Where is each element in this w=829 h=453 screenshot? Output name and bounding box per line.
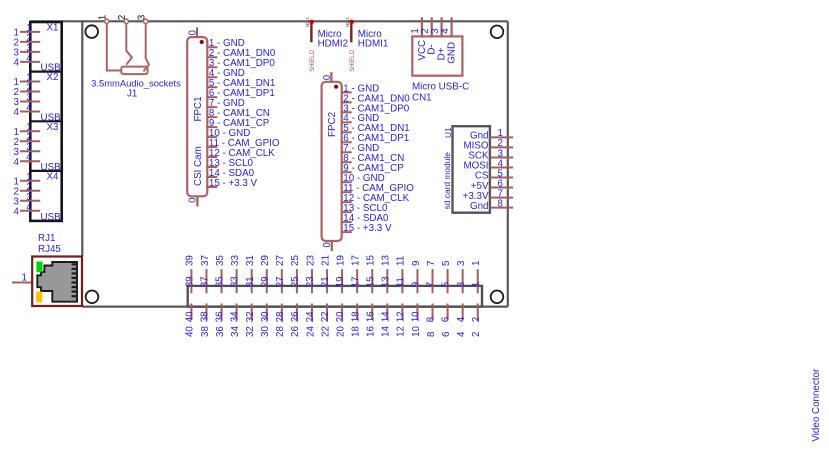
svg-text:3: 3 (456, 281, 467, 287)
svg-text:10: 10 (411, 326, 422, 337)
svg-text:SHIELD: SHIELD (310, 49, 316, 71)
svg-text:32: 32 (245, 311, 256, 322)
svg-text:Video Connector: Video Connector (811, 368, 822, 442)
svg-text:8: 8 (498, 198, 504, 209)
pin 15 of FPC FPC2: +3.3 V (341, 223, 392, 234)
wire divider above USB X4 (30, 170, 61, 172)
pin 2 of USB X2 (14, 83, 41, 99)
pin 1 of Micro USB-C CN1: VCC (410, 17, 428, 60)
pin 9 of GPIO header (top) (411, 261, 422, 294)
wire divider above USB X2 (30, 70, 61, 72)
svg-text:13: 13 (380, 276, 391, 287)
svg-text:11: 11 (396, 256, 407, 266)
svg-text:6: 6 (441, 316, 452, 322)
pin 4 of sd card module U1: MOSI (463, 158, 513, 171)
pin 5 of FPC FPC2: CAM1_DN1 (341, 123, 410, 134)
svg-text:FPC1: FPC1 (193, 96, 204, 121)
svg-text:24: 24 (305, 326, 316, 337)
pin 2 of USB X3 (14, 132, 41, 148)
svg-text:12: 12 (396, 326, 407, 337)
pin 4 of USB X2 (14, 103, 41, 119)
svg-text:1: 1 (471, 261, 482, 266)
svg-text:N0.1: N0.1 (345, 17, 351, 27)
svg-text:5: 5 (441, 260, 452, 266)
wire audio J1 ring contact from pin 3 (143, 23, 149, 71)
svg-text:0: 0 (187, 30, 198, 36)
pin 8 of GPIO header (bottom) (426, 304, 437, 338)
pin 10 of FPC FPC1: GND (206, 128, 250, 139)
svg-text:X3: X3 (47, 122, 60, 133)
svg-text:14: 14 (381, 326, 392, 337)
pin 10 of GPIO header (bottom) (411, 304, 422, 338)
svg-text:RJ1: RJ1 (38, 233, 55, 244)
pin 4 of GPIO header (bottom) (456, 304, 467, 338)
svg-text:15: 15 (365, 276, 376, 287)
pin 7 of GPIO header (top) (426, 261, 437, 294)
pin 11 of FPC FPC1: CAM_GPIO (206, 138, 280, 149)
svg-text:23: 23 (305, 255, 316, 266)
pin 37 of GPIO header (top) (200, 255, 211, 293)
svg-text:39: 39 (185, 276, 196, 287)
pin 4 of USB X4 (14, 202, 41, 218)
svg-text:Micro USB-C: Micro USB-C (412, 82, 469, 93)
svg-text:37: 37 (200, 255, 211, 266)
svg-text:24: 24 (305, 311, 316, 322)
pin 4 of FPC FPC2: GND (341, 113, 380, 124)
svg-text:30: 30 (260, 326, 271, 337)
pin 32 of GPIO header (bottom) (245, 304, 256, 338)
FPC FPC1 mounting pin 0 top (187, 28, 198, 38)
svg-text:18: 18 (350, 326, 361, 337)
svg-text:9: 9 (411, 261, 422, 266)
svg-text:8: 8 (426, 331, 437, 337)
svg-text:7: 7 (426, 261, 437, 266)
pin 7 of FPC FPC1: GND (206, 98, 245, 109)
pin 35 of GPIO header (top) (215, 255, 226, 294)
svg-text:10: 10 (411, 311, 422, 322)
pin 8 of sd card module U1: Gnd (470, 198, 513, 211)
svg-text:18: 18 (350, 311, 361, 322)
FPC connector FPC1 body (187, 37, 207, 196)
Micro HDMI1 shield pin (345, 17, 354, 43)
svg-text:4: 4 (14, 157, 20, 168)
pin 26 of GPIO header (bottom) (290, 304, 301, 338)
mounting hole bottom-left (86, 291, 99, 304)
svg-text:23: 23 (305, 276, 316, 287)
svg-text:35: 35 (215, 255, 226, 266)
svg-text:21: 21 (320, 276, 331, 287)
pin 19 of GPIO header (top) (335, 255, 346, 293)
pin 4 of Micro USB-C CN1: GND (440, 17, 458, 63)
pin 12 of FPC FPC2: CAM_CLK (341, 193, 410, 204)
svg-text:CSI Cam: CSI Cam (193, 146, 204, 186)
pin 1 of USB X1 (14, 23, 41, 39)
pin 23 of GPIO header (top) (305, 255, 316, 294)
GPIO header body (188, 286, 482, 307)
pin 3 of USB X3 (14, 142, 41, 158)
svg-text:19: 19 (335, 276, 346, 287)
svg-text:20: 20 (335, 311, 346, 322)
svg-text:5: 5 (441, 281, 452, 287)
FPC FPC1 mounting pin 0 bottom (187, 196, 198, 206)
svg-text:17: 17 (350, 255, 361, 266)
svg-text:J1: J1 (127, 88, 137, 99)
pin 11 of FPC FPC2: CAM_GPIO (341, 183, 415, 194)
svg-text:15: 15 (366, 255, 377, 266)
wire audio J1 sleeve from pin 1 (107, 23, 122, 71)
pin 3 of USB X4 (14, 192, 41, 208)
svg-text:20: 20 (335, 326, 346, 337)
FPC FPC2 pin 1 dot (334, 85, 338, 89)
svg-text:28: 28 (275, 311, 286, 322)
pin 3 of GPIO header (top) (456, 260, 467, 293)
svg-text:22: 22 (320, 311, 331, 322)
svg-text:SHIELD: SHIELD (350, 49, 356, 71)
svg-text:28: 28 (275, 326, 286, 337)
pin 9 of FPC FPC2: CAM1_CP (341, 163, 404, 174)
svg-text:1: 1 (471, 282, 482, 287)
pin 11 of GPIO header (top) (395, 256, 406, 293)
svg-text:38: 38 (200, 326, 211, 337)
svg-text:0: 0 (322, 74, 333, 80)
svg-text:X1: X1 (47, 23, 59, 34)
pin 33 of GPIO header (top) (230, 255, 241, 294)
pin 4 of USB X1 (14, 53, 41, 69)
pin 14 of FPC FPC2: SDA0 (341, 213, 389, 224)
pin 1 of FPC FPC1: GND (206, 38, 245, 49)
pin 2 of FPC FPC2: CAM1_DN0 (341, 93, 411, 104)
svg-text:4: 4 (14, 206, 20, 217)
pin 3 of Micro USB-C CN1: D+ (430, 17, 448, 60)
pin 5 of sd card module U1: CS (475, 168, 513, 181)
pin 4 of USB X3 (14, 152, 41, 168)
pin 31 of GPIO header (top) (245, 255, 256, 293)
svg-text:2: 2 (471, 332, 482, 337)
wire board outline top edge (30, 20, 508, 22)
pin 6 of GPIO header (bottom) (441, 304, 452, 338)
pin 3 of sd card module U1: SCK (468, 148, 513, 161)
pin 12 of FPC FPC1: CAM_CLK (206, 148, 275, 159)
pin 2 of GPIO header (bottom) (471, 304, 482, 338)
svg-text:4: 4 (26, 202, 32, 213)
FPC FPC2 mounting pin 0 top (322, 72, 333, 82)
svg-text:25: 25 (290, 255, 301, 266)
pin 8 of FPC FPC2: CAM1_CN (341, 153, 405, 164)
svg-text:1: 1 (22, 273, 27, 284)
svg-text:31: 31 (245, 276, 256, 287)
svg-text:13: 13 (381, 255, 392, 266)
pin 1 of GPIO header (top) (471, 261, 482, 294)
svg-text:31: 31 (245, 255, 256, 266)
pin 27 of GPIO header (top) (275, 255, 286, 293)
pin 1 of audio socket J1 terminal circle (105, 19, 109, 23)
FPC FPC2 mounting pin 0 bottom (322, 241, 333, 251)
pin 12 of GPIO header (bottom) (395, 304, 406, 338)
svg-text:36: 36 (215, 311, 226, 322)
svg-text:4: 4 (14, 107, 20, 118)
pin 30 of GPIO header (bottom) (260, 304, 271, 338)
svg-text:34: 34 (230, 311, 241, 322)
wire board outline left edge (81, 21, 83, 256)
svg-text:GND: GND (447, 42, 458, 64)
mounting hole bottom-right (491, 291, 504, 304)
RJ45 contact teeth (72, 264, 78, 296)
FPC FPC1 pin 1 dot (200, 40, 204, 44)
pin 29 of GPIO header (top) (260, 255, 271, 293)
svg-text:4: 4 (26, 53, 32, 64)
pin 2 of audio socket J1 terminal circle (124, 19, 128, 23)
svg-text:3.5mmAudio_sockets: 3.5mmAudio_sockets (91, 77, 181, 88)
pin 14 of FPC FPC1: SDA0 (206, 168, 254, 179)
pin 1 of FPC FPC2: GND (341, 83, 380, 94)
svg-text:37: 37 (200, 276, 211, 287)
svg-text:19: 19 (335, 255, 346, 266)
svg-text:0: 0 (187, 197, 198, 203)
svg-text:4: 4 (26, 103, 32, 114)
pin 4 of FPC FPC1: GND (206, 68, 245, 79)
svg-text:Gnd: Gnd (470, 201, 489, 212)
pin 10 of FPC FPC2: GND (341, 173, 385, 184)
svg-text:8: 8 (426, 316, 437, 322)
svg-text:2: 2 (471, 317, 482, 322)
svg-text:9: 9 (411, 282, 422, 287)
pin 3 of FPC FPC2: CAM1_DP0 (341, 103, 410, 114)
svg-text:22: 22 (320, 326, 331, 337)
svg-text:HDMI2: HDMI2 (318, 39, 348, 50)
pin 6 of FPC FPC2: CAM1_DP1 (341, 133, 409, 144)
svg-text:14: 14 (380, 311, 391, 322)
pin 15 of FPC FPC1: +3.3 V (206, 178, 257, 189)
wire board outline right edge (507, 21, 509, 306)
pin 3 of FPC FPC1: CAM1_DP0 (206, 58, 275, 69)
svg-text:7: 7 (426, 282, 437, 287)
pin 34 of GPIO header (bottom) (230, 304, 241, 338)
svg-text:16: 16 (365, 311, 376, 322)
pin 1 of USB X2 (14, 73, 41, 89)
pin 2 of FPC FPC1: CAM1_DN0 (206, 48, 276, 59)
pin 2 of USB X4 (14, 182, 41, 198)
pin 13 of FPC FPC1: SCL0 (206, 158, 253, 169)
pin 25 of GPIO header (top) (290, 255, 301, 294)
pin 5 of FPC FPC1: CAM1_DN1 (206, 78, 275, 89)
pin 7 of FPC FPC2: GND (341, 143, 380, 154)
svg-text:6: 6 (441, 331, 452, 337)
pin 3 of audio socket J1 terminal circle (144, 19, 148, 23)
svg-text:4: 4 (26, 152, 32, 163)
svg-text:USB: USB (41, 212, 62, 223)
pin 3 of USB X2 (14, 93, 41, 109)
pin 21 of GPIO header (top) (320, 255, 331, 293)
svg-text:40: 40 (185, 326, 196, 337)
svg-text:X4: X4 (47, 172, 60, 183)
pin 16 of GPIO header (bottom) (365, 304, 376, 338)
pin 18 of GPIO header (bottom) (350, 304, 361, 338)
Micro USB-C connector CN1 body (412, 36, 462, 75)
pin 9 of FPC FPC1: CAM1_CP (206, 118, 269, 129)
svg-text:15 - +3.3 V: 15 - +3.3 V (343, 223, 392, 234)
pin 15 of GPIO header (top) (365, 255, 376, 294)
Micro HDMI2 shield pin (305, 17, 314, 43)
pin 1 of RJ45 RJ1 (12, 273, 32, 284)
RJ45 connector RJ1 body (32, 257, 82, 307)
pin 8 of FPC FPC1: CAM1_CN (206, 108, 270, 119)
pin 24 of GPIO header (bottom) (305, 304, 316, 338)
svg-text:3: 3 (456, 260, 467, 266)
sd card module U1 body (453, 126, 490, 213)
svg-text:27: 27 (275, 276, 286, 287)
RJ45 yellow LED (36, 292, 42, 303)
RJ45 jack silhouette (37, 262, 77, 302)
svg-text:N0.1: N0.1 (305, 17, 311, 27)
pin 2 of USB X1 (14, 33, 41, 49)
pin 36 of GPIO header (bottom) (215, 304, 226, 338)
pin 5 of GPIO header (top) (441, 260, 452, 293)
pin 20 of GPIO header (bottom) (335, 304, 346, 338)
pin 3 of USB X1 (14, 43, 41, 59)
pin 28 of GPIO header (bottom) (275, 304, 286, 338)
svg-text:33: 33 (230, 255, 241, 266)
RJ45 green LED (36, 262, 42, 273)
svg-text:HDMI1: HDMI1 (358, 39, 388, 50)
svg-text:38: 38 (200, 311, 211, 322)
svg-text:34: 34 (230, 326, 241, 337)
svg-text:35: 35 (215, 276, 226, 287)
svg-text:0: 0 (322, 242, 333, 248)
pin 2 of Micro USB-C CN1: D- (420, 17, 438, 54)
pin 40 of GPIO header (bottom) (185, 304, 196, 338)
pin 14 of GPIO header (bottom) (380, 304, 391, 338)
USB connector column outline (30, 22, 61, 221)
svg-text:32: 32 (245, 326, 256, 337)
pin 6 of sd card module U1: +5V (471, 178, 513, 191)
svg-text:U1: U1 (443, 127, 453, 138)
wire board outline bottom edge (82, 306, 508, 308)
pin 39 of GPIO header (top) (185, 255, 196, 293)
svg-text:X2: X2 (47, 72, 59, 83)
svg-text:29: 29 (260, 276, 271, 287)
pin 22 of GPIO header (bottom) (320, 304, 331, 338)
svg-text:17: 17 (350, 276, 361, 287)
svg-text:15 - +3.3 V: 15 - +3.3 V (209, 178, 258, 189)
svg-text:4: 4 (456, 316, 467, 322)
svg-text:11: 11 (395, 277, 406, 287)
svg-text:4: 4 (440, 28, 451, 34)
wire audio J1 tip contact from pin 2 (126, 23, 132, 65)
pin 13 of FPC FPC2: SCL0 (341, 203, 388, 214)
svg-text:36: 36 (215, 326, 226, 337)
pin 13 of GPIO header (top) (380, 255, 391, 294)
svg-text:CN1: CN1 (412, 93, 432, 104)
svg-text:sd card module: sd card module (442, 152, 452, 210)
pin 1 of USB X3 (14, 122, 41, 138)
svg-text:40: 40 (185, 311, 196, 322)
pin 1 of USB X4 (14, 172, 41, 188)
svg-text:33: 33 (230, 276, 241, 287)
wire divider above USB X3 (30, 120, 61, 122)
svg-text:26: 26 (290, 311, 301, 322)
svg-text:12: 12 (395, 311, 406, 322)
pin 17 of GPIO header (top) (350, 255, 361, 293)
svg-text:4: 4 (14, 58, 20, 69)
svg-text:4: 4 (456, 331, 467, 337)
pin 2 of sd card module U1: MISO (463, 138, 513, 151)
mounting hole top-right (491, 26, 504, 39)
svg-text:25: 25 (290, 276, 301, 287)
svg-text:30: 30 (260, 311, 271, 322)
svg-text:29: 29 (260, 255, 271, 266)
svg-text:RJ45: RJ45 (38, 244, 61, 255)
svg-text:39: 39 (185, 255, 196, 266)
mounting hole top-left (85, 25, 98, 38)
pin 1 of sd card module U1: Gnd (470, 128, 513, 141)
audio J1 sleeve contact rectangle (121, 67, 147, 75)
FPC connector FPC2 body (322, 82, 342, 241)
svg-text:21: 21 (320, 255, 331, 266)
svg-text:26: 26 (290, 326, 301, 337)
pin 7 of sd card module U1: +3.3V (463, 188, 513, 201)
pin 38 of GPIO header (bottom) (200, 304, 211, 338)
svg-text:27: 27 (275, 255, 286, 266)
svg-text:FPC2: FPC2 (327, 112, 338, 137)
pin 6 of FPC FPC1: CAM1_DP1 (206, 88, 274, 99)
svg-text:16: 16 (366, 326, 377, 337)
